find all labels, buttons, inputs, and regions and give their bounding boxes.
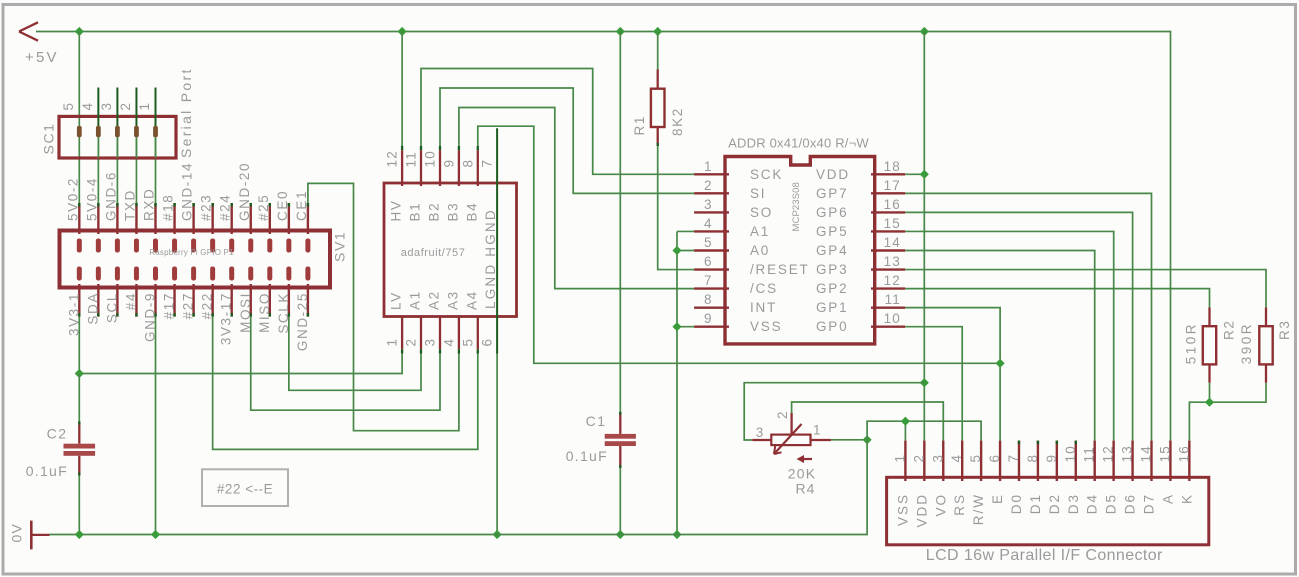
svg-text:9: 9 [704, 311, 713, 326]
svg-text:R4: R4 [796, 481, 816, 497]
junction gnd vertical at 0V rail [672, 530, 681, 539]
svg-text:GND-6: GND-6 [103, 171, 118, 221]
svg-text:2: 2 [775, 411, 790, 419]
adafruit bottom pin names LV,A1..A4 [389, 290, 480, 310]
svg-text:#22 <--E: #22 <--E [217, 482, 273, 497]
svg-text:GP0: GP0 [816, 319, 848, 334]
svg-text:#23: #23 [199, 194, 214, 221]
svg-text:VSS: VSS [895, 493, 910, 526]
svg-text:B1: B1 [408, 202, 423, 222]
svg-text:C1: C1 [586, 413, 607, 429]
wire CE1 net: SV1 CE1 to adafruit A3 [308, 183, 459, 430]
svg-text:1: 1 [892, 454, 907, 463]
wire GP5 to LCD D5 [905, 231, 1113, 440]
svg-text:15: 15 [884, 216, 901, 231]
svg-text:3: 3 [704, 197, 713, 212]
svg-text:R2: R2 [1222, 320, 1237, 340]
svg-text:8: 8 [704, 292, 713, 307]
svg-text:10: 10 [1063, 445, 1078, 462]
svg-text:B2: B2 [427, 202, 442, 222]
wire LGND/HGND to 0V rail [496, 354, 498, 535]
svg-text:D5: D5 [1104, 493, 1119, 514]
svg-text:R3: R3 [1277, 320, 1292, 340]
svg-text:2: 2 [404, 338, 419, 347]
MCP right pin names [816, 167, 850, 334]
svg-text:18: 18 [884, 159, 901, 174]
wire pot pin1 to gnd riser [831, 439, 867, 441]
wire GP0 to LCD RS [905, 327, 962, 441]
junction +5V at VDD drop [920, 27, 929, 36]
svg-text:LGND HGND: LGND HGND [483, 208, 498, 309]
wire SCLK net: SV1 SCLK to adafruit A1 [289, 317, 421, 391]
svg-text:5: 5 [704, 235, 713, 250]
svg-text:VDD: VDD [914, 493, 929, 528]
svg-text:INT: INT [750, 300, 777, 315]
wire B4 to E net [478, 126, 1000, 363]
svg-text:9: 9 [441, 159, 456, 168]
svg-text:SCK: SCK [750, 167, 783, 182]
svg-text:1: 1 [813, 423, 821, 438]
wire #22 net: SV1 #22 to adafruit A4 [213, 317, 478, 450]
svg-text:10: 10 [884, 311, 901, 326]
junction E net [996, 359, 1005, 368]
C1 value 0.1uF [566, 448, 608, 464]
R4 refdes [796, 481, 816, 497]
wire pot wiper pin2 to LCD VO [792, 402, 944, 441]
R2 refdes [1222, 320, 1237, 340]
svg-text:8K2: 8K2 [670, 107, 685, 136]
wire VDD net: +5V rail down to MCP VDD and LCD VDD [905, 32, 924, 441]
wire +5V rail [36, 32, 1171, 441]
junction VSS riser [901, 417, 910, 426]
svg-text:14: 14 [1138, 445, 1153, 462]
wire R1 bottom to MCP /RESET [658, 146, 694, 270]
wire GP4 to LCD D4 [905, 251, 1094, 441]
svg-text:ADDR 0x41/0x40 R/¬W: ADDR 0x41/0x40 R/¬W [728, 136, 869, 151]
svg-text:D3: D3 [1066, 493, 1081, 514]
junction A0 gnd [672, 246, 681, 255]
svg-text:6: 6 [480, 338, 495, 347]
svg-text:GP6: GP6 [816, 205, 848, 220]
wire K net: R2 bottom to LCD K [1189, 383, 1209, 441]
SV1 bottom pin labels [66, 292, 310, 351]
svg-text:12: 12 [1101, 445, 1116, 462]
svg-text:11: 11 [1082, 446, 1097, 462]
svg-text:6: 6 [987, 454, 1002, 463]
svg-text:RXD: RXD [142, 188, 157, 221]
svg-text:MISO: MISO [257, 292, 272, 333]
svg-text:13: 13 [1120, 445, 1135, 462]
svg-text:A3: A3 [445, 290, 460, 310]
adafruit LGND HGND pin name [483, 208, 498, 309]
svg-text:17: 17 [884, 178, 901, 193]
svg-text:Serial Port: Serial Port [178, 67, 194, 158]
svg-text:SCLK: SCLK [276, 292, 291, 334]
junction VSS gnd [672, 322, 681, 331]
svg-text:7: 7 [480, 159, 495, 168]
SC1 pin numbers 5..1 [61, 102, 152, 111]
wire GP6 to LCD D6 [905, 212, 1132, 440]
junction 3V3 at C2 [75, 369, 84, 378]
svg-text:#4: #4 [123, 292, 138, 310]
svg-text:A2: A2 [427, 290, 442, 310]
svg-text:GND-9: GND-9 [143, 292, 158, 342]
connector SV1 Raspberry Pi GPIO P1 [60, 203, 331, 317]
C1 refdes [586, 413, 607, 429]
svg-text:A1: A1 [408, 290, 423, 310]
svg-text:D4: D4 [1085, 493, 1100, 514]
SV1 top pin labels [65, 162, 309, 221]
svg-text:E: E [990, 493, 1005, 504]
wire GP3 to R3 [905, 270, 1266, 308]
svg-text:/RESET: /RESET [750, 262, 810, 277]
wire C1 column: +5V rail to C1 to 0V rail [619, 32, 621, 535]
svg-text:9: 9 [1044, 454, 1059, 463]
svg-text:3V3-1: 3V3-1 [66, 292, 81, 336]
SV1 part name [149, 248, 234, 257]
wire +5V down through SC1 pin 5 to SV1 5V0-2 [78, 32, 80, 204]
svg-text:1: 1 [385, 338, 400, 347]
svg-text:13: 13 [884, 254, 901, 269]
wire GP7 to LCD D7 [905, 193, 1151, 440]
wire MOSI net: SV1 MOSI to adafruit A2 [251, 317, 440, 411]
junction C2 at 0V rail [75, 530, 84, 539]
svg-text:+5V: +5V [25, 49, 59, 66]
svg-text:D2: D2 [1047, 493, 1062, 514]
ground 0V supply symbol [31, 521, 49, 550]
resistor R2 [1203, 308, 1216, 383]
svg-text:0.1uF: 0.1uF [566, 448, 608, 464]
SC1 refdes [41, 122, 57, 154]
svg-text:VDD: VDD [816, 167, 850, 182]
wire LCD VSS riser [904, 421, 906, 440]
wire GP2 to R2 [905, 289, 1209, 308]
svg-text:SCL: SCL [104, 292, 119, 323]
svg-text:C2: C2 [47, 426, 68, 442]
svg-text:#22: #22 [200, 292, 215, 319]
svg-text:R/W: R/W [971, 493, 986, 525]
svg-text:GND-20: GND-20 [237, 162, 252, 221]
svg-text:SC1: SC1 [41, 122, 57, 154]
svg-text:SDA: SDA [85, 292, 100, 325]
svg-text:/CS: /CS [750, 281, 778, 296]
wire 0V rail [50, 421, 982, 534]
svg-text:3V3-17: 3V3-17 [219, 292, 234, 345]
junction +5V at C1 [616, 27, 625, 36]
R4 adjust arrow [797, 455, 813, 463]
svg-text:R1: R1 [632, 115, 647, 135]
wire B3 to MCP /CS [459, 108, 694, 289]
R2 value 510R [1184, 322, 1199, 364]
svg-text:VSS: VSS [750, 319, 782, 334]
svg-text:B3: B3 [445, 202, 460, 222]
svg-text:8: 8 [1025, 454, 1040, 463]
svg-text:LCD 16w Parallel I/F Connector: LCD 16w Parallel I/F Connector [926, 547, 1163, 564]
svg-text:#27: #27 [181, 292, 196, 319]
svg-text:4: 4 [441, 338, 456, 347]
svg-text:TXD: TXD [122, 189, 137, 221]
MCP title ADDR 0x41/0x40 R/~W [728, 136, 869, 151]
MCP left pin names [750, 167, 810, 334]
R4 value 20K [788, 466, 817, 482]
svg-text:5: 5 [460, 338, 475, 347]
svg-text:B4: B4 [464, 202, 479, 222]
wire B1 to MCP SCK [421, 69, 694, 175]
svg-text:2: 2 [704, 178, 713, 193]
adafruit top pin numbers 12..7 [385, 150, 495, 167]
svg-text:GP2: GP2 [816, 281, 848, 296]
svg-text:MCP23S08: MCP23S08 [791, 182, 802, 231]
svg-text:3: 3 [756, 425, 764, 440]
adafruit part name [401, 247, 466, 259]
svg-text:SI: SI [750, 186, 766, 201]
junction +5V at SC1 pin5 [75, 27, 84, 36]
svg-text:10: 10 [423, 150, 438, 167]
svg-text:3: 3 [930, 454, 945, 463]
IC U1 MCP23S08 [694, 157, 905, 344]
svg-text:390R: 390R [1239, 322, 1254, 364]
svg-text:#24: #24 [218, 194, 233, 221]
svg-text:#17: #17 [162, 292, 177, 319]
adafruit top pin names HV,B1..B4 [389, 200, 480, 222]
svg-text:14: 14 [884, 235, 901, 250]
svg-text:7: 7 [704, 273, 713, 288]
net label box #22 to E [202, 469, 288, 506]
junction LGND at 0V rail [493, 530, 502, 539]
capacitor C1 [605, 412, 636, 468]
wire GP1 to E net / LCD E [905, 308, 1000, 441]
svg-text:1: 1 [137, 102, 152, 111]
wire 3V3 net: SV1 3V3-1 to adafruit LV [79, 317, 402, 374]
svg-text:510R: 510R [1184, 322, 1199, 364]
svg-text:adafruit/757: adafruit/757 [401, 247, 466, 259]
R4 pin labels 3,2,1 [756, 411, 822, 440]
svg-text:12: 12 [884, 273, 901, 288]
wire R3 bottom to K net [1210, 383, 1267, 403]
svg-text:MOSI: MOSI [238, 292, 253, 333]
node +5V label [25, 49, 59, 66]
connector SC1 Serial Port [59, 88, 176, 159]
junction VDD at pot net [920, 378, 929, 387]
svg-text:GP7: GP7 [816, 186, 848, 201]
svg-text:A0: A0 [750, 243, 770, 258]
svg-text:5: 5 [968, 454, 983, 463]
junction K net [1205, 398, 1214, 407]
svg-text:LV: LV [389, 291, 404, 310]
svg-text:5: 5 [61, 102, 76, 111]
svg-text:D0: D0 [1009, 493, 1024, 514]
svg-text:SO: SO [750, 205, 773, 220]
junction VDD stub [920, 170, 929, 179]
svg-text:2: 2 [118, 102, 133, 111]
capacitor C2 [64, 422, 96, 476]
junction GND-9 at 0V rail [151, 530, 160, 539]
svg-text:GND-14: GND-14 [180, 162, 195, 221]
SV1 refdes [332, 231, 348, 262]
svg-text:#18: #18 [161, 194, 176, 221]
svg-text:3: 3 [423, 338, 438, 347]
svg-text:HV: HV [389, 200, 404, 222]
svg-text:6: 6 [704, 254, 713, 269]
svg-text:CE1: CE1 [294, 190, 309, 221]
svg-text:15: 15 [1157, 445, 1172, 462]
svg-text:A: A [1160, 493, 1175, 504]
svg-text:8: 8 [460, 159, 475, 168]
svg-text:5V0-4: 5V0-4 [84, 177, 99, 221]
svg-text:3: 3 [99, 102, 114, 111]
R1 value 8K2 [670, 107, 685, 136]
svg-text:A1: A1 [750, 224, 770, 239]
wire GND-9 to 0V rail [155, 317, 157, 535]
R3 refdes [1277, 320, 1292, 340]
svg-text:20K: 20K [788, 466, 817, 482]
adafruit bottom pin numbers 1..6 [385, 338, 495, 347]
svg-text:GP3: GP3 [816, 262, 848, 277]
svg-text:16: 16 [884, 197, 901, 212]
resistor R1 [651, 70, 665, 147]
svg-text:D1: D1 [1028, 493, 1043, 514]
svg-text:D7: D7 [1141, 493, 1156, 514]
junction +5V at R1 [653, 27, 662, 36]
MCP part name vertical [791, 182, 802, 231]
svg-text:7: 7 [1006, 454, 1021, 463]
svg-text:GP4: GP4 [816, 243, 848, 258]
svg-text:16: 16 [1176, 445, 1191, 462]
MCP right pin numbers 18..10 [884, 159, 901, 326]
svg-text:0V: 0V [9, 523, 25, 543]
level shifter U adafruit/757 [384, 128, 517, 353]
R3 value 390R [1239, 322, 1254, 364]
junction pot pin1 gnd [863, 435, 872, 444]
svg-text:GP5: GP5 [816, 224, 848, 239]
svg-text:2: 2 [911, 454, 926, 463]
LCD pin numbers 1..16 [892, 445, 1191, 462]
svg-text:11: 11 [885, 292, 901, 307]
svg-text:1: 1 [704, 159, 713, 174]
svg-text:D6: D6 [1123, 493, 1138, 514]
svg-text:VO: VO [933, 493, 948, 517]
wire B2 to MCP SI [440, 88, 694, 193]
wire R1 top to +5V rail [657, 32, 659, 70]
LCD title [926, 547, 1163, 564]
svg-text:GP1: GP1 [816, 300, 848, 315]
svg-text:4: 4 [704, 216, 713, 231]
svg-text:11: 11 [404, 151, 419, 167]
svg-text:RS: RS [952, 493, 967, 516]
C2 value 0.1uF [26, 463, 68, 479]
svg-text:CE0: CE0 [275, 190, 290, 221]
wire MCP A1,A0,VSS ground link [677, 231, 694, 534]
MCP left pin numbers 1..9 [704, 159, 713, 326]
junction +5V at HV [398, 27, 407, 36]
svg-text:4: 4 [949, 454, 964, 463]
wire pot pin3 to +5V/VDD [744, 383, 924, 440]
R1 refdes [632, 115, 647, 135]
svg-text:5V0-2: 5V0-2 [65, 177, 80, 221]
svg-text:K: K [1179, 493, 1194, 504]
svg-text:4: 4 [80, 102, 95, 111]
svg-text:12: 12 [385, 150, 400, 167]
LCD pin names [895, 493, 1194, 528]
SC1 label Serial Port [178, 67, 194, 158]
svg-text:#25: #25 [256, 194, 271, 221]
svg-text:Raspberry Pi GPIO P1: Raspberry Pi GPIO P1 [149, 248, 234, 257]
node 0V label [9, 523, 25, 543]
svg-text:SV1: SV1 [332, 231, 348, 262]
connector LCD 16w Parallel I/F [887, 441, 1209, 545]
potentiometer R4 20K [752, 413, 831, 454]
wire HV to +5V rail [401, 32, 403, 146]
svg-text:GND-25: GND-25 [295, 292, 310, 351]
junction C1 at 0V rail [616, 530, 625, 539]
svg-text:0.1uF: 0.1uF [26, 463, 68, 479]
wire SC1 pins 4..1 to SV1 5V0-4,GND-6,TXD,RXD [98, 137, 155, 203]
+5V supply arrow [19, 22, 38, 40]
wire 3V3-1 down through C2 to 0V [78, 374, 80, 535]
resistor R3 [1259, 308, 1272, 383]
C2 refdes [47, 426, 68, 442]
svg-text:A4: A4 [464, 290, 479, 310]
